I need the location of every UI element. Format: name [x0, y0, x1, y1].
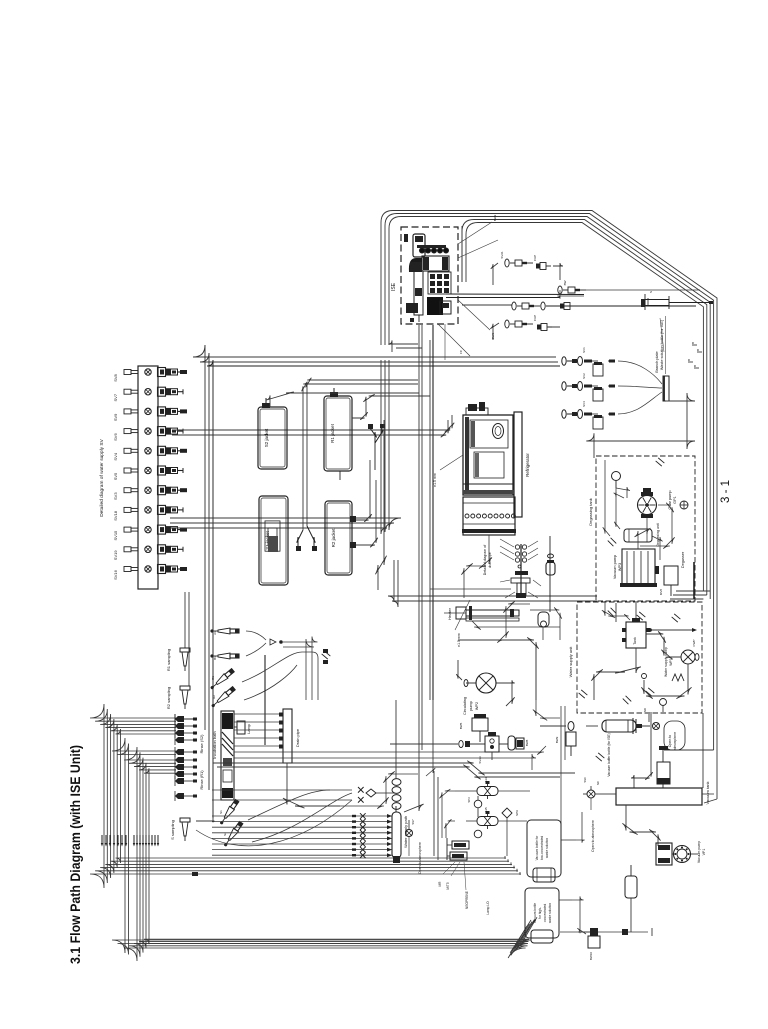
svg-text:MR: MR: [438, 881, 442, 887]
svg-text:Incubation bath: Incubation bath: [212, 731, 217, 758]
svg-text:waste solution: waste solution: [545, 838, 549, 858]
svg-text:Rinse (S2): Rinse (S2): [199, 734, 204, 754]
svg-text:SV8: SV8: [113, 373, 118, 381]
svg-text:SV4: SV4: [582, 401, 586, 407]
svg-text:GP1: GP1: [673, 496, 677, 504]
svg-text:pump: pump: [469, 701, 473, 711]
svg-text:Vacuum pump: Vacuum pump: [697, 841, 701, 863]
svg-text:SV6: SV6: [113, 433, 118, 441]
svg-text:Water supply pump: Water supply pump: [664, 647, 668, 677]
svg-text:SV7: SV7: [411, 819, 415, 825]
svg-text:SV7: SV7: [113, 393, 118, 401]
svg-text:Open to atmosphere: Open to atmosphere: [418, 842, 422, 874]
svg-text:Drain pipe: Drain pipe: [295, 728, 300, 747]
svg-text:SV23: SV23: [478, 756, 482, 764]
svg-text:Rinse (R1): Rinse (R1): [199, 770, 204, 790]
svg-text:Vacuum buffer bottle (for ISE): Vacuum buffer bottle (for ISE): [607, 733, 611, 776]
svg-text:B: B: [691, 342, 695, 344]
svg-text:SV18: SV18: [113, 510, 118, 521]
svg-text:Waste solution bottle (for ISE: Waste solution bottle (for ISE): [660, 319, 664, 370]
svg-text:3.1 Flow Path Diagram (with IS: 3.1 Flow Path Diagram (with ISE Unit): [67, 745, 83, 964]
svg-text:Branch plate: Branch plate: [655, 351, 659, 372]
svg-text:waste solution: waste solution: [548, 903, 552, 923]
svg-text:low-concentrated: low-concentrated: [540, 836, 544, 861]
svg-text:SV5: SV5: [113, 472, 118, 480]
svg-text:Heater: Heater: [447, 607, 452, 620]
svg-text:Lamp LO: Lamp LO: [486, 901, 490, 915]
svg-text:SV19: SV19: [113, 550, 118, 561]
svg-text:Vacuum bottle: Vacuum bottle: [533, 903, 537, 923]
svg-text:BW5: BW5: [459, 722, 463, 729]
svg-text:Water supply unit: Water supply unit: [568, 646, 573, 678]
svg-text:R1: R1: [211, 676, 215, 680]
svg-text:Open to atmosphere: Open to atmosphere: [591, 820, 595, 852]
svg-text:R2 jacket: R2 jacket: [331, 528, 336, 548]
svg-text:BW2: BW2: [493, 214, 497, 221]
svg-text:BW: BW: [563, 280, 567, 285]
svg-text:SV16: SV16: [113, 569, 118, 580]
svg-text:WP3: WP3: [618, 563, 622, 571]
svg-text:Degassing tank: Degassing tank: [588, 498, 593, 526]
svg-text:SV3: SV3: [113, 492, 118, 500]
svg-text:drain pipe: drain pipe: [488, 552, 492, 567]
svg-text:R2: R2: [212, 695, 216, 699]
svg-text:CUP: CUP: [533, 315, 537, 321]
svg-text:Degassing unit: Degassing unit: [656, 523, 660, 546]
svg-text:SV0: SV0: [583, 777, 587, 783]
svg-text:MV8: MV8: [659, 589, 663, 596]
svg-text:Detailed diagram of: Detailed diagram of: [483, 545, 487, 575]
svg-text:Degasser: Degasser: [681, 551, 685, 568]
svg-text:S1: S1: [219, 810, 223, 814]
svg-text:A13: A13: [484, 777, 488, 783]
svg-text:Tank: Tank: [633, 637, 637, 645]
svg-text:SV9: SV9: [113, 413, 118, 421]
svg-text:S: S: [649, 291, 653, 293]
svg-text:CWP: CWP: [692, 640, 696, 647]
svg-text:Open to: Open to: [668, 735, 672, 748]
svg-text:Vacuum pump: Vacuum pump: [613, 555, 617, 579]
svg-text:S sampling: S sampling: [170, 820, 175, 840]
svg-text:Vacuum bottle for: Vacuum bottle for: [535, 835, 539, 861]
svg-text:B: B: [696, 349, 700, 351]
svg-text:BW8: BW8: [525, 739, 529, 746]
svg-text:R2 sampling: R2 sampling: [166, 687, 171, 709]
svg-text:concentrated: concentrated: [543, 904, 547, 923]
svg-text:A1: A1: [213, 631, 217, 635]
svg-text:SV4: SV4: [113, 452, 118, 460]
svg-text:SP9: SP9: [515, 810, 519, 816]
svg-text:for high-: for high-: [538, 907, 542, 919]
svg-text:SP3: SP3: [467, 797, 471, 803]
svg-text:ISE: ISE: [391, 282, 397, 291]
svg-text:Circulating: Circulating: [463, 697, 467, 715]
svg-text:Refrigerator: Refrigerator: [525, 453, 530, 477]
svg-text:R1 sampling: R1 sampling: [166, 649, 171, 671]
svg-text:CUP: CUP: [533, 255, 537, 261]
svg-text:SV2: SV2: [582, 373, 586, 379]
svg-text:WP2: WP2: [475, 702, 479, 710]
svg-text:VP1: VP1: [702, 849, 706, 856]
svg-text:e1.5 mm: e1.5 mm: [433, 473, 437, 487]
svg-text:B: B: [693, 365, 697, 367]
svg-text:B: B: [687, 359, 691, 361]
svg-text:SV1: SV1: [582, 347, 586, 353]
svg-text:atmosphere: atmosphere: [673, 732, 677, 751]
svg-text:BW9: BW9: [555, 736, 559, 743]
svg-text:SV21: SV21: [500, 251, 504, 259]
svg-text:Gear pump: Gear pump: [668, 491, 672, 510]
svg-text:R1 jacket: R1 jacket: [330, 423, 335, 443]
svg-text:SV15: SV15: [113, 530, 118, 541]
svg-text:B1: B1: [213, 656, 217, 660]
svg-text:BW10: BW10: [589, 952, 593, 961]
svg-text:S2 jacket: S2 jacket: [264, 428, 269, 447]
svg-text:Lamp: Lamp: [247, 724, 251, 734]
svg-text:M/T5: M/T5: [446, 882, 450, 889]
svg-text:NC: NC: [596, 781, 600, 785]
svg-text:NEOPRENE: NEOPRENE: [465, 891, 469, 909]
svg-text:A15: A15: [484, 807, 488, 813]
svg-text:Detailed diagram of water supp: Detailed diagram of water supply SV: [99, 438, 105, 516]
svg-text:Vacuum tank: Vacuum tank: [705, 781, 710, 804]
svg-text:3 - 1: 3 - 1: [720, 480, 732, 503]
